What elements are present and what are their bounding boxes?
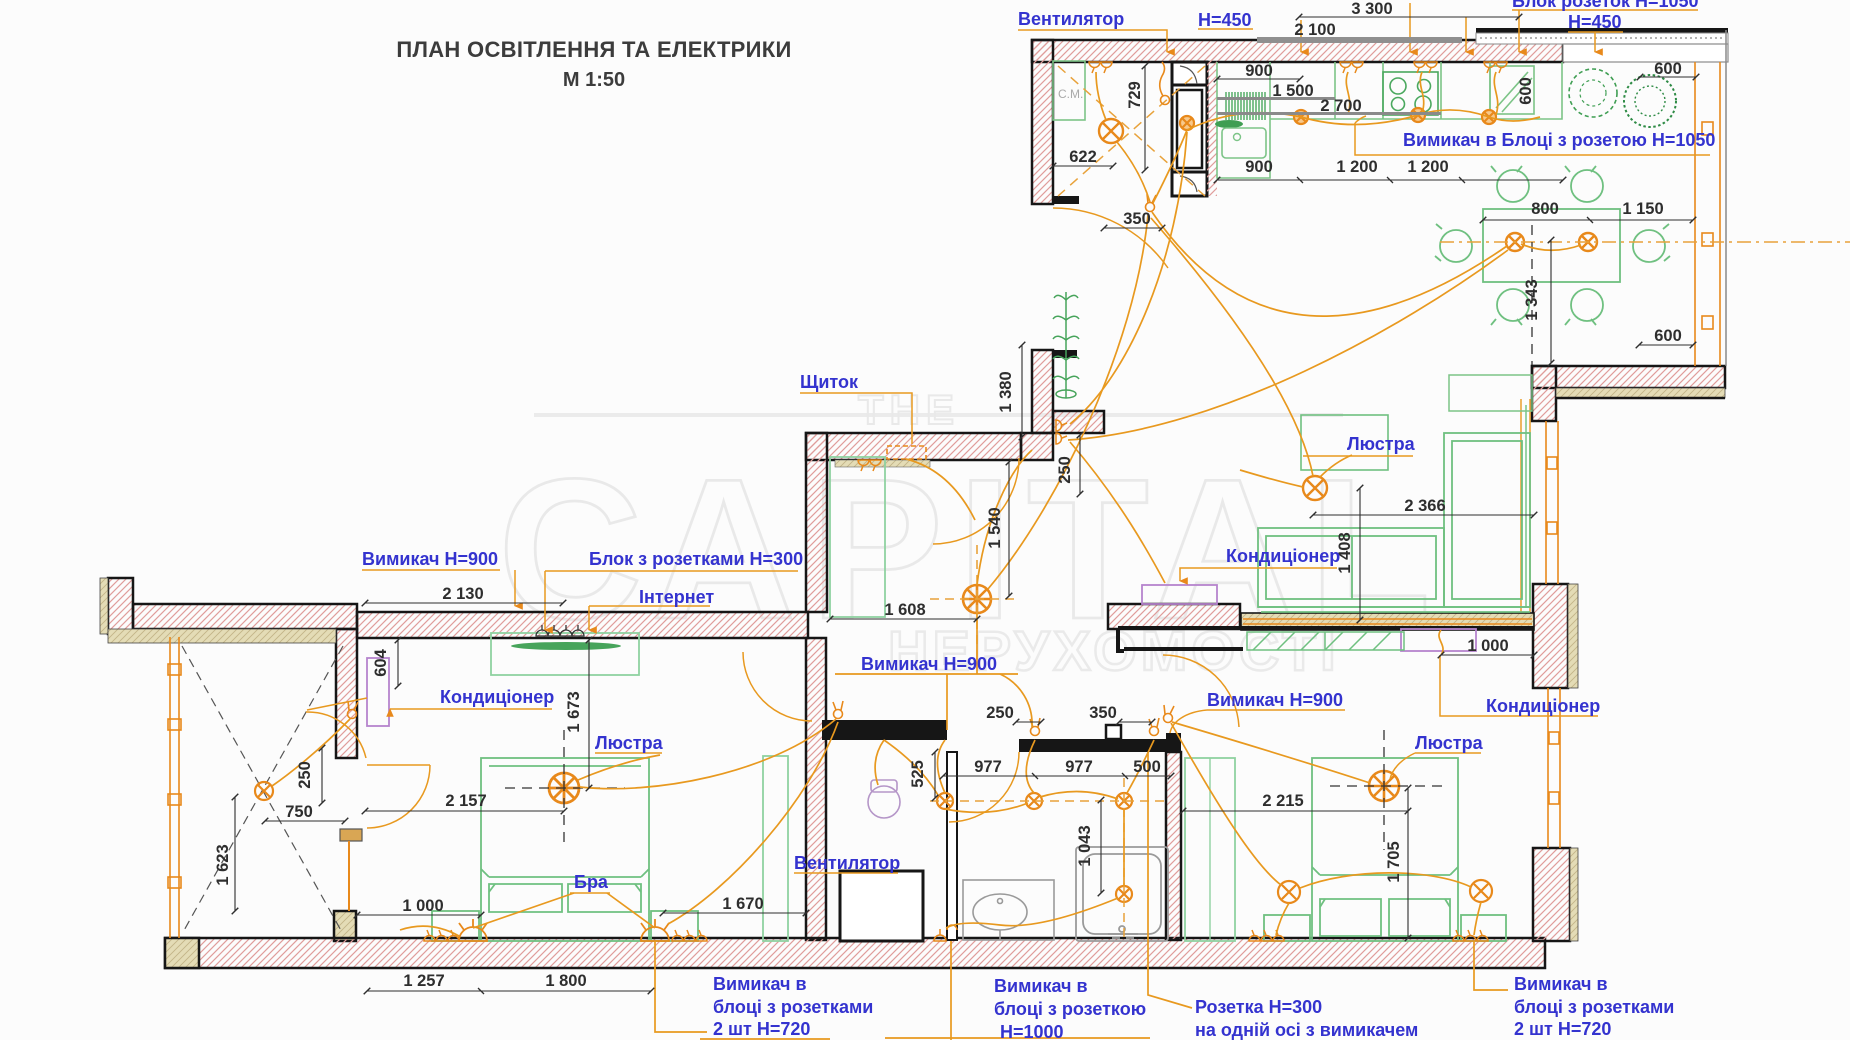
wire loggia switch to light [272,719,350,786]
wall stub hall/living [1053,411,1104,433]
socket pair kitchen wall 1 [1089,62,1112,73]
wall corner block bedroom1 NW [108,578,133,634]
dim 800/1150 line [1483,219,1693,221]
wire bedroom2 left sconce down [1276,903,1289,935]
underline bottom label left [700,1038,830,1040]
leader bedroom1 left sconce [400,926,459,936]
bath spot 2 [1026,793,1042,809]
green shelf leaf kitchen [1215,120,1243,128]
svg-text:ПЛАН ОСВІТЛЕННЯ ТА ЕЛЕКТРИКИ: ПЛАН ОСВІТЛЕННЯ ТА ЕЛЕКТРИКИ [396,37,791,62]
svg-text:977: 977 [1065,758,1093,776]
svg-text:Кондиціонер: Кондиціонер [1486,696,1600,716]
svg-text:600: 600 [1517,77,1535,105]
leader verticals top extra [1409,3,1411,52]
svg-text:2 366: 2 366 [1404,497,1445,515]
leader corridor switch label [835,673,1018,675]
svg-text:Бра: Бра [574,872,609,892]
shower tray WC [840,871,923,941]
socket trio bedroom1 right [672,930,707,941]
svg-text:Інтернет: Інтернет [639,587,714,607]
svg-text:Щиток: Щиток [800,372,859,392]
rotated dim texts [214,77,1541,885]
svg-text:Розетка Н=300: Розетка Н=300 [1195,997,1322,1017]
wire between pendants [1521,244,1581,250]
chimney notch on bath top wall [1106,725,1121,739]
svg-text:М 1:50: М 1:50 [563,69,625,91]
wire to living light short [1240,470,1303,487]
door leaf bedroom1 left [367,765,430,828]
dim 604 line [397,640,399,686]
leader Lyustra bedroom2 [1390,753,1481,779]
dim 1343 line [1550,240,1552,363]
leader Ventilator [1018,30,1167,52]
wall bath right / bedroom2 left [1166,752,1181,940]
dim 1408 line [1359,488,1361,620]
insulation strip under L-wall right [1556,388,1725,398]
wire switch to right sconce bedroom1 [668,722,838,924]
svg-text:Вимикач в: Вимикач в [713,974,807,994]
wall step black under living bottom wall [1118,628,1534,651]
wire corner sockets big swoop to dining [1068,250,1508,440]
dim 2366 line [1313,514,1534,516]
window strip loggia left [168,637,181,938]
window lines on living south band [1243,618,1532,620]
svg-text:2 215: 2 215 [1262,792,1303,810]
wire bath spots run [938,740,1119,812]
dim texts [285,0,1682,990]
ceiling light bedroom1 [549,773,579,803]
dim 3300 line [1299,16,1519,18]
wire panel to corridor [906,459,975,520]
wire entry light to closet sockets [1096,72,1106,120]
balcony annex top: black bar [1476,28,1728,33]
fridge [1490,66,1534,114]
AC living (purple) [1142,585,1217,604]
window strip living east beside sofa [1521,399,1530,612]
sconce bedroom1 right [641,919,669,941]
ceiling light bedroom2 [1369,771,1399,801]
wire bath spot4 to sink sconce [946,898,1118,928]
dim 350 entry line [1104,227,1162,229]
svg-text:1 623: 1 623 [214,844,232,885]
electrical panel dashed box on corridor wall [887,446,926,459]
wire switch to counter junction [1153,130,1187,203]
dim 1000 bedroom1 line [357,914,481,916]
wall left kitchen lower [1032,350,1053,433]
leader Blok z rozetkamy H=300 [545,571,798,630]
wire big sweep to dining pendants [1152,212,1507,316]
door arc bedroom1 [743,652,812,721]
svg-text:2 130: 2 130 [442,585,483,603]
dim 1380 line [1021,345,1023,437]
bedroom1 light dashed axes [505,730,625,845]
svg-text:Вимикач в: Вимикач в [1514,974,1608,994]
svg-text:1 343: 1 343 [1523,279,1541,320]
door arc entry [1053,208,1168,268]
kitchen counter outline [1217,62,1562,178]
svg-text:Блок з розетками Н=300: Блок з розетками Н=300 [589,549,803,569]
bedroom2 light dashed axes [1330,730,1444,850]
wall bottom band [165,938,1545,968]
svg-text:2 100: 2 100 [1294,21,1335,39]
dim 1043 line [1100,800,1102,893]
svg-text:600: 600 [1654,60,1682,78]
svg-text:Блок розеток Н=1050: Блок розеток Н=1050 [1512,0,1699,11]
svg-text:977: 977 [974,758,1002,776]
plant 1 [1569,69,1617,117]
dim 1500 bar [1217,97,1335,100]
door jamb bedroom2 [1166,733,1181,741]
svg-text:Кондиціонер: Кондиціонер [440,687,554,707]
hatch strip right of shaft [1207,55,1217,196]
wall block right of bedroom2 lower [1533,848,1570,941]
dim 250 loggia line [321,748,323,803]
svg-text:Вентилятор: Вентилятор [794,853,900,873]
leader bath sink down [950,941,952,1040]
entry dashed diagonals [1058,66,1205,196]
svg-text:Н=450: Н=450 [1198,10,1252,30]
svg-text:1 043: 1 043 [1076,825,1094,866]
svg-text:блоці з розетками: блоці з розетками [1514,997,1674,1017]
svg-text:1 257: 1 257 [403,972,444,990]
wall left kitchen upper [1032,40,1053,204]
dim 2130 line [365,602,563,604]
ceiling light loggia [255,782,273,800]
dining pendant 1 [1506,233,1524,251]
svg-text:250: 250 [986,704,1014,722]
leader Bra underline [570,892,610,894]
wire switch bath right vertical [1123,809,1125,886]
insulation strip under corridor wall [835,460,930,467]
bathtub [1076,847,1168,941]
svg-text:1 150: 1 150 [1622,200,1663,218]
watermark THE CAPITAL [498,386,1445,682]
bed 2 [1312,758,1458,941]
svg-text:2 шт Н=720: 2 шт Н=720 [1514,1019,1611,1039]
svg-text:729: 729 [1126,81,1144,109]
dim 350 bath line [1119,721,1152,723]
balcony annex band [1476,33,1728,44]
svg-text:750: 750 [285,803,313,821]
svg-text:1 705: 1 705 [1385,841,1403,882]
window strip bedroom2 right [1548,688,1560,848]
wardrobe band bedroom2 north [1247,632,1404,650]
nightstand bed2 right [1461,915,1506,941]
toilet WC [868,780,900,818]
svg-text:1 200: 1 200 [1336,158,1377,176]
leader Vymykach v blotsi z rozetoyu H=1050 [1355,116,1710,155]
socket cluster corridor closet [858,460,881,471]
wire counter junction to living corner sockets [1070,132,1187,424]
svg-text:250: 250 [296,761,314,789]
leader Lyustra living underline [1303,455,1413,457]
dim 1670 line [663,912,806,914]
wall loggia partition lower [334,911,356,941]
leader Kondytsioner bedroom2 [1440,655,1598,716]
dim 1608 line [830,618,977,620]
leader Blok rozetok top [1512,10,1698,52]
wall block right of bedroom2 upper [1533,584,1568,688]
wardrobe bedroom1 right [763,756,788,941]
wire Bra zigzag [473,893,655,928]
svg-text:1 380: 1 380 [997,371,1015,412]
balcony right edge [1725,30,1727,366]
svg-text:Кондиціонер: Кондиціонер [1226,546,1340,566]
switch bedroom2 door [1164,705,1175,723]
svg-text:Люстра: Люстра [1347,434,1416,454]
svg-text:600: 600 [1654,327,1682,345]
svg-text:1 500: 1 500 [1272,82,1313,100]
ceiling light corridor [963,585,991,613]
svg-text:Вимикач Н=900: Вимикач Н=900 [861,654,997,674]
dim 1623 line [234,797,236,911]
svg-text:622: 622 [1069,148,1097,166]
svg-text:1 670: 1 670 [722,895,763,913]
svg-text:Люстра: Люстра [1415,733,1484,753]
socket pair kitchen wall 4 [1484,62,1507,73]
door arc bath [949,752,1019,822]
socket cluster bath sink [934,925,957,941]
svg-text:Вимикач в Блоці з розетою Н=10: Вимикач в Блоці з розетою Н=1050 [1403,130,1715,150]
switch at entry door [1146,194,1157,212]
wall WC/bath partition [947,752,957,940]
wall loggia partition upper [336,629,357,758]
bed 1 [481,758,649,941]
dim 2157 line [365,810,564,812]
dim 977/977/500 line [943,775,1171,777]
bath spot 1 [937,793,953,809]
loggia door leaf closed [348,841,350,911]
leader Vymykach H=900 bedroom2 [1170,710,1345,733]
svg-text:1 673: 1 673 [565,691,583,732]
socket cluster living corner [1056,420,1067,444]
leader Kondytsioner living [1180,568,1337,581]
svg-text:525: 525 [909,760,927,788]
svg-text:2 157: 2 157 [445,792,486,810]
ceiling light entry [1099,119,1123,143]
switch bedroom1 door [833,701,843,719]
wire bedroom1 chandelier to label [578,755,660,780]
dim 2700 bar [1217,112,1441,115]
dining axis dash-dot [1440,241,1850,243]
svg-text:500: 500 [1133,758,1161,776]
svg-text:1 540: 1 540 [986,507,1004,548]
wall bedroom1 right / wc left [806,638,826,940]
dim 600 kitchen right line [1640,76,1696,78]
wall corridor left [806,433,827,612]
svg-text:350: 350 [1089,704,1117,722]
nightstand bed1 left [432,911,479,941]
svg-text:900: 900 [1245,62,1273,80]
door jamb entry top [1053,196,1079,204]
AC bedroom1 (purple) [367,658,389,726]
leader Shchytok [800,393,912,444]
svg-text:Вимикач Н=900: Вимикач Н=900 [362,549,498,569]
wall bedroom1 top right part [357,612,808,638]
svg-text:900: 900 [1245,158,1273,176]
leader Vymykach H=900 bedroom1 [362,570,515,606]
wire squiggle AC bedroom2 [1439,630,1443,655]
switch loggia door [348,701,359,719]
window strip right upper (between L-wall and block) [1546,421,1558,584]
wall step entry-corridor [1021,433,1053,460]
sconce bedroom1 left [459,919,487,941]
ceiling light living [1303,476,1327,500]
svg-text:1 000: 1 000 [402,897,443,915]
socket block bedroom1 top [536,625,584,636]
leader bath tub socket down [1148,752,1192,1008]
dim 1705 line [1407,788,1409,938]
corridor closet [830,457,885,617]
svg-text:604: 604 [372,648,390,676]
door arc bedroom2 [1163,655,1239,727]
svg-text:Вимикач Н=900: Вимикач Н=900 [1207,690,1343,710]
switch bath door right [1149,718,1159,736]
wire bedroom2 sconce arc over bed [1300,873,1471,888]
dim 250 hall line [1079,435,1081,494]
wire corridor light down to label line [976,613,978,674]
wire squiggle socket 3 [1420,72,1423,113]
wire squiggle socket 2 [1346,72,1349,114]
leader Kondytsioner bedroom1 [390,708,552,710]
corridor light dashed axes [930,545,1016,660]
dim 2215 line [1183,810,1408,812]
wire sweep to corridor light [988,215,1148,589]
sconce bedroom2 right [1470,880,1492,902]
wall bath top (black) [1019,739,1181,752]
leader H=450 right [1568,32,1623,52]
svg-text:Н=1000: Н=1000 [1000,1022,1064,1040]
svg-text:350: 350 [1123,210,1151,228]
dim 250 bath line [1016,721,1041,723]
dim 750 line [265,820,345,822]
insulation strip left of NW corner block [100,578,108,634]
wire bedroom2 switch to chandelier [1172,722,1370,783]
leader Lyustra bedroom1 underline [595,752,662,754]
insulation strip right of bedroom2 lower block [1570,848,1578,941]
nightstand bed2 left [1264,915,1310,941]
dim 900/1200/1200 line [1217,179,1563,181]
dim 600 dining right line [1639,344,1693,346]
plant 2 [1624,75,1676,127]
wire bedroom2 right sconce down [1474,902,1481,935]
wall WC top (black) [822,720,947,740]
dish rack [1226,92,1265,120]
svg-text:800: 800 [1531,200,1559,218]
dim 729 line [1144,66,1146,170]
socket trio bedroom1 left [424,930,459,941]
socket trio bedroom2 left [1249,930,1284,941]
wire switch to bath spots [1026,740,1035,793]
svg-text:1 800: 1 800 [545,972,586,990]
leader H=450 left [1198,20,1301,52]
svg-text:Вентилятор: Вентилятор [1018,9,1124,29]
svg-text:блоці з розетками: блоці з розетками [713,997,873,1017]
bath sink vanity [963,880,1054,940]
counter socket B [1411,108,1425,122]
svg-text:Люстра: Люстра [595,733,664,753]
wire corner sockets to AC living [1070,442,1165,583]
insulation strip under bedroom1 top wall [108,629,336,643]
svg-text:1 608: 1 608 [884,601,925,619]
dim 622 line [1053,165,1113,167]
wall end cap bottom-left [165,938,199,968]
wire kitchen counter run [1187,110,1540,130]
svg-text:3 300: 3 300 [1351,0,1392,18]
wall top kitchen/living [1032,40,1563,62]
wire squiggle socket 4 [1494,72,1497,115]
counter socket A [1294,110,1308,124]
wire entry light to switch [1117,142,1150,202]
tv stand living [1301,415,1388,470]
wire living light to label [1320,455,1352,477]
counter socket C [1482,110,1496,124]
vent shaft kitchen [1172,62,1207,196]
svg-text:2 700: 2 700 [1320,97,1361,115]
socket pair kitchen wall 2 [1340,62,1363,73]
washing machine closet С.М. [1053,61,1085,120]
leader Internet [589,606,710,630]
balcony glazing band top-right [1563,44,1728,62]
dim 900 top line [1217,78,1300,80]
wire bedroom1 switch to chandelier [580,719,836,789]
dim 1000 bedroom2 line [1441,654,1534,656]
dim 525 line [934,752,936,798]
sofa living [1258,433,1530,612]
bath dashed axes [930,778,1166,940]
wire toilet area [875,740,938,795]
svg-text:блоці з розеткою: блоці з розеткою [994,999,1146,1019]
bedroom1 dresser with sockets [491,633,639,675]
dining table [1483,209,1620,282]
shelf by window living [1449,375,1532,411]
kitchen sink [1222,128,1266,158]
insulation strip window band living south [1241,613,1534,630]
AC bedroom2 (purple) [1401,629,1476,651]
bath spot 3 [1116,793,1132,809]
loggia X glazing marks [182,646,343,934]
bath spot 4 [1116,886,1132,902]
dining pendant 2 [1579,233,1597,251]
sconce bedroom2 left [1278,881,1300,903]
socket trio bedroom2 right [1453,930,1488,941]
counter junction D [1180,116,1194,130]
door arc loggia [306,698,367,758]
svg-text:1 200: 1 200 [1407,158,1448,176]
switch at kitchen wall by shaft [1160,62,1170,105]
svg-text:С.М.: С.М. [1058,87,1083,101]
door arc corridor-entry [933,458,1019,544]
svg-text:на одній осі з вимикачем: на одній осі з вимикачем [1195,1020,1418,1040]
door jamb entry bottom [1053,350,1077,358]
wire bottom connector [885,1037,1150,1039]
tall plant living west wall [1053,292,1079,398]
wall corridor top [806,433,1021,460]
dim 1257/1800 line [367,990,651,992]
svg-text:Вимикач в: Вимикач в [994,976,1088,996]
stove [1383,72,1438,115]
dining chairs [1435,166,1670,325]
window strip living right [1695,62,1720,366]
insulation strip right of bedroom2 upper block [1568,584,1578,688]
wall L-shape left leg [1532,366,1556,421]
wall living bottom left part [1108,604,1240,629]
dim 1673 line [588,640,590,788]
svg-text:Н=450: Н=450 [1568,12,1622,32]
socket pair kitchen wall 3 [1414,62,1437,73]
wire corridor light up through opening [977,450,1032,585]
svg-text:2 шт Н=720: 2 шт Н=720 [713,1019,810,1039]
